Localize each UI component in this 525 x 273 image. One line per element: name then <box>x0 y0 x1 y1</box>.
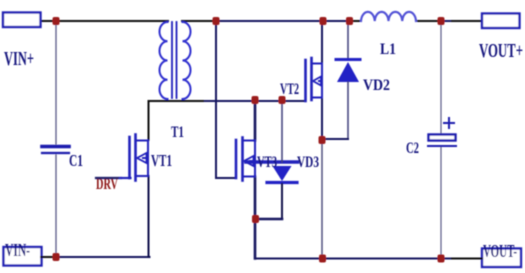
svg-text:VIN+: VIN+ <box>4 48 34 69</box>
svg-text:VT2: VT2 <box>280 81 299 98</box>
svg-text:L1: L1 <box>380 41 396 58</box>
svg-text:T1: T1 <box>171 124 184 141</box>
svg-text:VIN-: VIN- <box>5 240 30 260</box>
svg-text:C1: C1 <box>69 151 83 170</box>
svg-text:VD2: VD2 <box>363 77 390 94</box>
svg-text:VOUT+: VOUT+ <box>479 40 523 61</box>
svg-text:C2: C2 <box>406 140 419 157</box>
svg-text:VD3: VD3 <box>297 154 319 171</box>
svg-text:VT3: VT3 <box>257 154 277 171</box>
svg-text:VT1: VT1 <box>151 151 172 170</box>
svg-text:VOUT-: VOUT- <box>483 241 517 261</box>
